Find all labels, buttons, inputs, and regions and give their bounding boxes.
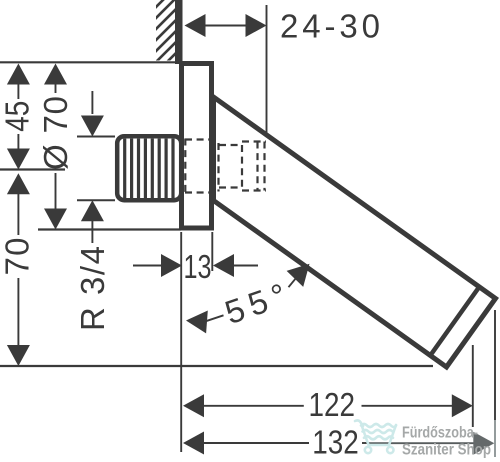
svg-text:122: 122	[309, 386, 356, 423]
svg-text:R 3/4: R 3/4	[74, 246, 111, 331]
dimension dia70 top arrow	[44, 64, 67, 85]
dimension 70 line	[17, 193, 19, 235]
dimension 13 line right	[232, 265, 258, 267]
dimension 132 extension line	[494, 310, 496, 420]
hidden connector dashed: section A	[184, 139, 186, 196]
angle 55 left leader	[206, 315, 224, 321]
escutcheon wall plate	[182, 64, 212, 229]
svg-text:13: 13	[184, 248, 212, 285]
svg-text:Szaniter Shop: Szaniter Shop	[402, 442, 491, 459]
shower arm pipe	[214, 97, 496, 367]
thread dim upper arrow	[81, 116, 104, 137]
dimension 132 right arrow	[473, 432, 494, 455]
svg-text:70: 70	[0, 238, 35, 276]
wall hatching	[82, 0, 250, 70]
dimension 45 top arrow	[7, 64, 30, 85]
svg-text:Ø 70: Ø 70	[37, 96, 74, 170]
thread top extension line	[77, 136, 115, 138]
pipe axis reference line	[0, 168, 65, 170]
dimension 24-30 right arrow	[246, 14, 267, 37]
thread dim upper leader	[91, 91, 93, 114]
angle 55 left arrow	[186, 311, 208, 334]
dimension 13 left extension line	[180, 232, 182, 452]
thread lines	[123, 139, 126, 199]
dimension 13 right arrow	[213, 254, 234, 277]
dimension 45 line	[17, 84, 19, 99]
dimension 24-30 left arrow	[185, 14, 206, 37]
dimension 13 left arrow	[161, 254, 182, 277]
dimension 70 top arrow	[7, 173, 30, 194]
thread dim lower arrow	[81, 200, 104, 221]
dimension dia70 bottom arrow	[44, 209, 67, 230]
dimension 45 bottom arrow	[7, 149, 30, 170]
spray face rim line	[430, 287, 479, 356]
threaded tailpiece	[117, 136, 181, 200]
angle 55 right arrow	[287, 264, 310, 287]
svg-text:132: 132	[312, 424, 359, 461]
dimension 13 right extension line	[211, 232, 213, 271]
thread bottom extension line	[77, 199, 115, 201]
dimension 122 extension line	[472, 345, 474, 427]
svg-text:45: 45	[0, 101, 35, 132]
dimension 70 bottom arrow	[7, 345, 30, 366]
angle 55 right leader	[289, 278, 296, 287]
bottom reference line	[0, 365, 433, 367]
escutcheon top extension line	[0, 61, 177, 63]
dimension 122 left arrow	[183, 394, 204, 417]
dimension 13 line left	[133, 265, 163, 267]
watermark cart icon	[355, 420, 396, 453]
dimension 122 right arrow	[452, 394, 473, 417]
svg-text:24-30: 24-30	[280, 8, 380, 45]
thread dim lower leader	[91, 221, 93, 243]
dimension 132 line	[202, 442, 309, 444]
escutcheon bottom extension line	[38, 228, 181, 230]
dimension dia70 line	[55, 84, 57, 93]
dimension 122 line	[202, 405, 304, 407]
svg-text:Fürdőszoba-: Fürdőszoba-	[402, 425, 478, 442]
hidden connector dashed: section B	[219, 144, 242, 146]
dimension 132 left arrow	[183, 432, 204, 455]
hidden connector dashed: section C	[242, 140, 266, 142]
dimension 24-30 extension line	[266, 5, 268, 136]
wall face line	[175, 0, 183, 64]
dimension 24-30 line	[206, 25, 246, 27]
